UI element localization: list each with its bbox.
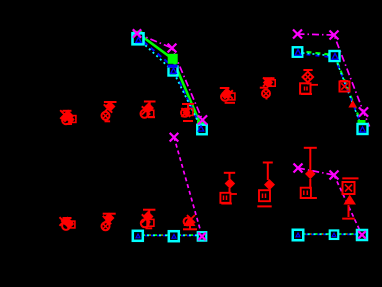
BR magenta X 1 (294, 164, 303, 173)
TL green square P1 (133, 31, 143, 41)
BL flat red dashes (150, 234, 198, 236)
BR flat blue dashes (306, 233, 357, 235)
TR red point 4 (340, 81, 358, 108)
BL magenta descending line (174, 137, 202, 236)
BL flat blue dashes (145, 235, 198, 237)
BR cyan square 2 (330, 230, 339, 239)
TL red point 4 (181, 104, 194, 121)
TR blue triangle P1 (295, 50, 301, 56)
TL magenta X P1 (133, 29, 141, 37)
TR red point 2 (260, 77, 275, 99)
TL red point 3 (141, 102, 156, 118)
TL green solid curve (138, 33, 201, 125)
TL magenta X P3 (198, 115, 207, 124)
TR red point 3 (300, 70, 318, 94)
BL flat green dashes (143, 234, 198, 236)
BR flat red dashes (310, 233, 357, 235)
TL cyan dotted curve (138, 39, 202, 130)
TL magenta dash-dot curve (137, 34, 203, 121)
TR cyan square P3 (358, 124, 368, 134)
BR cyan square 1 (293, 230, 304, 241)
BR cyan square 3 (357, 230, 367, 240)
TL blue triangle P2 (171, 68, 177, 73)
TL green square P3 (197, 121, 204, 128)
TR cyan square P2 (330, 51, 340, 61)
TR cyan square P1 (293, 47, 303, 57)
BR red point 3 (300, 148, 317, 198)
TR red point 1 (220, 88, 235, 103)
BL magenta X square 3 (198, 233, 206, 241)
TR blue triangle P3 (360, 127, 366, 132)
TR green line (298, 51, 362, 124)
BL red point 3 (141, 210, 156, 229)
BL cyan square 2 (169, 231, 179, 241)
TR cyan dotted line (298, 53, 363, 130)
TL cyan square P2 (169, 67, 178, 76)
TL blue triangle P1 (136, 37, 142, 42)
TL red point 1 (60, 110, 76, 124)
TR magenta X P3 (359, 107, 368, 116)
BL flat cyan dashes (147, 234, 198, 236)
TR magenta X P2 (330, 31, 339, 40)
TR blue triangle P2 (332, 54, 338, 60)
TR magenta X P1 (293, 30, 302, 39)
BR magenta descending line (334, 175, 361, 233)
BR magenta X square 3 (358, 231, 366, 239)
BR red point 1 (220, 173, 237, 204)
BL cyan square 1 (133, 231, 143, 241)
BR flat cyan dashes (308, 233, 357, 235)
TL red point 2 (102, 101, 117, 121)
TL green square P2 (168, 54, 178, 64)
BR magenta segment 1 (298, 168, 334, 175)
BL cyan square 3 (198, 232, 207, 241)
TR green square P3 (358, 120, 366, 128)
TL magenta X P2 (168, 44, 177, 53)
TL cyan square P3 (197, 125, 207, 135)
BL red point 4 (183, 215, 197, 229)
BL magenta X top (170, 133, 179, 142)
TL blue triangle P3 (198, 126, 204, 131)
BR flat green dashes (304, 233, 357, 235)
TL blue dashed curve (137, 36, 201, 128)
TR magenta dash-dot line (298, 34, 370, 127)
BL red point 1 (60, 217, 75, 230)
BL blue mark square 2 (172, 234, 176, 238)
BR magenta X 2 (330, 171, 339, 180)
TL cyan square P1 (133, 33, 144, 44)
BR blue mark square 2 (332, 233, 336, 237)
BR red point 4 (342, 178, 358, 218)
BL blue mark square 1 (136, 234, 140, 238)
BR red point 2 (257, 163, 275, 207)
TL blue dash under green square (168, 64, 178, 67)
TR blue dashed line (298, 54, 363, 128)
BL red point 2 (102, 213, 116, 231)
BR blue mark square 1 (296, 233, 300, 237)
